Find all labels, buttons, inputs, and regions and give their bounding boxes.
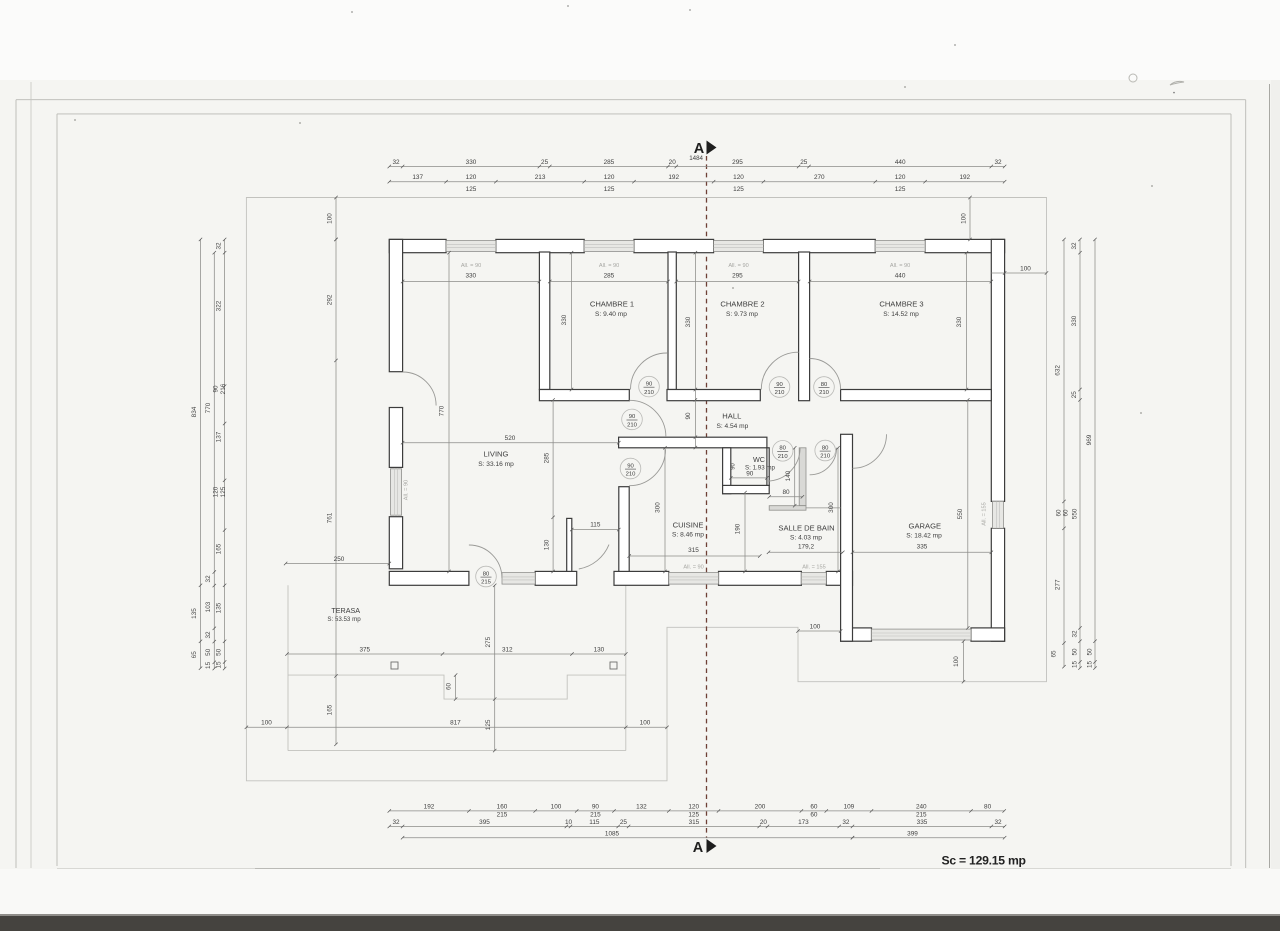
- terasa french-door fixed part (hatched): [502, 573, 535, 585]
- svg-text:213: 213: [535, 174, 546, 181]
- door label 80/210 chambre3: [814, 377, 835, 398]
- svg-text:32: 32: [392, 819, 400, 826]
- svg-text:10: 10: [565, 819, 573, 826]
- exterior wall top - pier right: [925, 239, 1005, 252]
- right dim chain 632/60-60/277/65: [1063, 239, 1065, 666]
- window top wall living 120: [446, 241, 496, 252]
- svg-text:S: 9.73 mp: S: 9.73 mp: [726, 311, 758, 318]
- svg-text:295: 295: [732, 273, 743, 280]
- svg-text:S: 18.42 mp: S: 18.42 mp: [906, 533, 942, 540]
- svg-text:215: 215: [481, 580, 492, 586]
- door hall to bath corridor arc: [767, 448, 800, 481]
- dim 100/817/100 below terasa: [246, 726, 667, 728]
- window cuisine south 120 All=90: [669, 573, 719, 585]
- svg-text:192: 192: [424, 803, 435, 810]
- svg-text:137: 137: [215, 431, 222, 442]
- svg-text:All. = 90: All. = 90: [404, 480, 410, 500]
- window top wall chambre2 120: [714, 241, 764, 252]
- svg-text:15: 15: [205, 661, 212, 669]
- svg-text:32: 32: [205, 575, 212, 583]
- svg-text:200: 200: [755, 803, 766, 810]
- dim 285/130 living east: [552, 400, 554, 572]
- svg-text:32: 32: [994, 159, 1002, 166]
- dim 315 cuisine width: [629, 555, 760, 557]
- svg-text:125: 125: [688, 812, 699, 819]
- dim 275/125 terasa vertical: [494, 585, 496, 750]
- svg-text:15: 15: [1072, 661, 1079, 669]
- lower terrace slab outline: [288, 750, 626, 752]
- svg-text:770: 770: [439, 405, 446, 416]
- wc west wall: [723, 448, 731, 494]
- dim 300 bath height: [837, 448, 839, 572]
- dim 520 living width: [403, 442, 619, 444]
- site boundary outline: [246, 198, 1046, 781]
- bottom dim total 399: [853, 837, 1005, 839]
- dim 250 terasa to house left: [286, 563, 390, 565]
- svg-text:550: 550: [957, 508, 964, 519]
- svg-text:All. = 155: All. = 155: [802, 565, 825, 571]
- svg-text:32: 32: [205, 631, 212, 639]
- svg-text:90: 90: [592, 803, 600, 810]
- dim 140 corridor: [794, 448, 796, 506]
- svg-text:50: 50: [205, 648, 212, 656]
- exterior wall top - pier left: [389, 239, 446, 252]
- svg-text:132: 132: [636, 803, 647, 810]
- svg-text:632: 632: [1055, 365, 1062, 376]
- svg-text:761: 761: [327, 512, 334, 523]
- hall south wall: [619, 437, 767, 448]
- svg-text:S: 4.03 mp: S: 4.03 mp: [790, 535, 822, 542]
- svg-text:CUISINE: CUISINE: [673, 521, 704, 530]
- outer drawing frame: [16, 99, 1246, 101]
- south wall pier 132: [614, 571, 669, 585]
- svg-text:165: 165: [215, 543, 222, 554]
- svg-text:330: 330: [1071, 315, 1078, 326]
- exterior wall left - pier lower: [389, 517, 402, 569]
- dim 440 chambre3 width: [810, 281, 992, 283]
- door label 80/210 garage: [815, 440, 836, 461]
- terasa slab outline: [288, 585, 626, 699]
- dim 100 left of garage south: [798, 630, 841, 632]
- left dim chain 32/322/90-216/137/120-125/165/135/50/15: [224, 239, 226, 668]
- svg-text:80: 80: [782, 489, 790, 496]
- wc south wall: [723, 485, 770, 493]
- dim 100 horizontal house-to-site right: [991, 272, 1046, 274]
- svg-text:32: 32: [215, 242, 222, 250]
- south wall pier 100: [535, 571, 577, 585]
- svg-text:322: 322: [215, 300, 222, 311]
- svg-text:240: 240: [916, 803, 927, 810]
- exterior wall top - pier 4: [763, 239, 875, 252]
- svg-text:330: 330: [561, 314, 568, 325]
- garage door 240 hatched band: [872, 629, 972, 640]
- svg-text:15: 15: [1087, 661, 1094, 669]
- svg-text:312: 312: [502, 646, 513, 653]
- svg-text:395: 395: [479, 819, 490, 826]
- interior wall chambre2/chambre3: [799, 252, 810, 401]
- svg-text:440: 440: [895, 159, 906, 166]
- svg-text:285: 285: [604, 159, 615, 166]
- dim 335 garage width: [853, 551, 992, 553]
- svg-text:S: 4.54 mp: S: 4.54 mp: [716, 423, 748, 430]
- interior wall chambre1/chambre2: [668, 252, 676, 390]
- svg-text:25: 25: [541, 159, 549, 166]
- dim 285 chambre1 width: [550, 281, 668, 283]
- dim 330 chambre2 height + hall 90: [694, 253, 696, 448]
- bedroom south wall segment under chambre2: [667, 390, 760, 401]
- interior wall living/chambre1: [539, 252, 549, 390]
- exterior wall left - pier middle: [389, 408, 402, 468]
- svg-text:295: 295: [732, 159, 743, 166]
- svg-text:90: 90: [212, 385, 219, 393]
- svg-text:179,2: 179,2: [798, 543, 814, 550]
- svg-text:109: 109: [844, 803, 855, 810]
- svg-text:300: 300: [655, 502, 662, 513]
- bottom dim chain row1 192/160/100/90/132/120/200/60/109/240/80: [389, 810, 1004, 812]
- window left wall 120 All=90: [390, 469, 401, 515]
- svg-text:969: 969: [1086, 434, 1093, 445]
- svg-text:100: 100: [640, 720, 651, 727]
- svg-text:32: 32: [1072, 630, 1079, 638]
- svg-text:All. = 90: All. = 90: [461, 263, 481, 269]
- door living to cuisine arc: [629, 449, 665, 485]
- garage south wall pier west: [841, 628, 872, 641]
- svg-text:100: 100: [1020, 266, 1031, 273]
- svg-text:330: 330: [956, 316, 963, 327]
- svg-text:90: 90: [627, 463, 634, 469]
- dim 100 vertical site-to-house top left: [335, 198, 337, 240]
- svg-text:215: 215: [497, 812, 508, 819]
- svg-text:80: 80: [483, 571, 490, 577]
- dim 330 living top width: [403, 281, 540, 283]
- right dim chain 32/330/25/550/32/50/15: [1079, 239, 1081, 668]
- door living to terasa arc: [469, 545, 502, 578]
- svg-text:25: 25: [620, 819, 628, 826]
- svg-text:192: 192: [959, 174, 970, 181]
- svg-text:292: 292: [327, 294, 334, 305]
- svg-text:1484: 1484: [689, 155, 703, 162]
- svg-text:CHAMBRE 3: CHAMBRE 3: [879, 300, 923, 309]
- scan specks: [351, 11, 353, 13]
- svg-text:817: 817: [450, 720, 461, 727]
- svg-text:20: 20: [669, 159, 677, 166]
- svg-text:90: 90: [629, 414, 636, 420]
- pergola post left: [391, 662, 398, 669]
- svg-text:137: 137: [412, 174, 423, 181]
- svg-text:130: 130: [544, 539, 551, 550]
- bath-garage wall (garage west): [841, 434, 853, 641]
- svg-text:60: 60: [810, 812, 818, 819]
- bath north partition (hatched): [769, 506, 806, 511]
- svg-text:100: 100: [327, 213, 334, 224]
- dim 375/312/130 terasa: [287, 653, 626, 655]
- svg-text:330: 330: [685, 316, 692, 327]
- svg-text:125: 125: [220, 486, 227, 497]
- svg-text:335: 335: [917, 543, 928, 550]
- svg-text:250: 250: [334, 556, 345, 563]
- svg-text:115: 115: [589, 819, 600, 826]
- svg-text:80: 80: [984, 803, 992, 810]
- svg-text:120: 120: [212, 486, 219, 497]
- svg-text:A: A: [693, 840, 704, 856]
- svg-text:125: 125: [895, 186, 906, 193]
- door label 90/210 hall-living: [622, 409, 643, 430]
- svg-text:210: 210: [626, 472, 637, 478]
- svg-text:25: 25: [1071, 391, 1078, 399]
- exterior wall right - pier lower: [991, 528, 1004, 641]
- scanner dark strip at bottom edge: [0, 916, 1280, 931]
- svg-text:125: 125: [733, 186, 744, 193]
- door chambre2 swing arc: [761, 352, 798, 389]
- svg-text:275: 275: [485, 636, 492, 647]
- door living to hall arc: [629, 400, 666, 437]
- svg-text:60: 60: [1063, 509, 1070, 517]
- wc east thin wall: [767, 448, 769, 486]
- dim 770 living height: [448, 253, 450, 572]
- wall living east lower (cuisine west): [619, 487, 629, 572]
- left dim chain 770/32/103/32/50/15: [213, 253, 215, 669]
- door label 90/210 chambre2: [769, 377, 790, 398]
- door label 90/210 chambre1: [639, 376, 660, 397]
- svg-text:375: 375: [359, 646, 370, 653]
- svg-text:120: 120: [604, 174, 615, 181]
- dim 179,2 bath width: [769, 551, 843, 553]
- svg-text:S: 14.52 mp: S: 14.52 mp: [883, 311, 919, 318]
- svg-text:CHAMBRE 2: CHAMBRE 2: [720, 300, 764, 309]
- door chambre3 swing arc: [810, 359, 841, 390]
- dim 100 vertical site-to-house top right: [969, 198, 971, 240]
- svg-text:120: 120: [895, 174, 906, 181]
- top dim chain row2 137/120/213/120/192/120/270/120/192: [389, 181, 1004, 183]
- door label 80/215 terasa door: [476, 566, 497, 587]
- bottom dim total 1085: [403, 837, 853, 839]
- window garage east All=155: [992, 501, 1003, 528]
- svg-text:135: 135: [215, 602, 222, 613]
- svg-text:215: 215: [916, 812, 927, 819]
- pergola post right: [610, 662, 617, 669]
- svg-text:300: 300: [828, 502, 835, 513]
- svg-text:210: 210: [644, 390, 655, 396]
- garage north wall: [841, 390, 992, 401]
- svg-text:100: 100: [810, 623, 821, 630]
- svg-text:90: 90: [731, 463, 737, 469]
- svg-text:135: 135: [191, 608, 198, 619]
- exterior wall top - pier 3: [634, 239, 714, 252]
- exterior wall left - pier upper: [389, 239, 402, 371]
- svg-text:100: 100: [961, 213, 968, 224]
- svg-text:S: 33.16 mp: S: 33.16 mp: [478, 461, 514, 468]
- svg-text:WC: WC: [753, 455, 765, 464]
- svg-text:103: 103: [205, 601, 212, 612]
- svg-text:210: 210: [775, 390, 786, 396]
- window top wall chambre3 120: [875, 241, 925, 252]
- svg-text:32: 32: [994, 819, 1002, 826]
- svg-text:80: 80: [822, 445, 829, 451]
- svg-text:210: 210: [820, 454, 831, 460]
- paper fold edges: [30, 82, 32, 868]
- door chambre1 swing arc: [631, 353, 668, 390]
- dim 80 bath door: [769, 496, 802, 498]
- south wall pier 200: [719, 571, 802, 585]
- svg-text:550: 550: [1072, 508, 1079, 519]
- svg-text:50: 50: [215, 648, 222, 656]
- svg-text:315: 315: [689, 819, 700, 826]
- dim 90 wc width: [731, 477, 767, 479]
- garage south wall pier east: [971, 628, 1005, 641]
- svg-text:173: 173: [798, 819, 809, 826]
- svg-text:210: 210: [627, 423, 638, 429]
- svg-text:90: 90: [746, 470, 754, 477]
- svg-text:335: 335: [917, 819, 928, 826]
- dim 115 kitchen passage: [572, 529, 619, 531]
- svg-text:All. = 90: All. = 90: [599, 263, 619, 269]
- south wall pier bath-garage corner: [826, 571, 852, 585]
- svg-text:50: 50: [1087, 648, 1094, 656]
- door garage arc: [853, 434, 887, 468]
- svg-text:315: 315: [688, 547, 699, 554]
- kitchen door stub wall: [567, 518, 572, 571]
- exterior wall top - pier 2: [496, 239, 584, 252]
- pencil smudge top right: [1129, 74, 1137, 82]
- svg-text:S: 9.40 mp: S: 9.40 mp: [595, 311, 627, 318]
- svg-text:115: 115: [590, 522, 601, 529]
- svg-text:285: 285: [544, 452, 551, 463]
- svg-text:215: 215: [590, 812, 601, 819]
- svg-text:100: 100: [953, 656, 960, 667]
- svg-text:S: 8.46 mp: S: 8.46 mp: [672, 532, 704, 539]
- svg-text:125: 125: [604, 186, 615, 193]
- svg-text:190: 190: [735, 523, 742, 534]
- svg-text:210: 210: [819, 390, 830, 396]
- dim chain left of plan 292/761/165: [335, 239, 337, 744]
- svg-text:440: 440: [895, 273, 906, 280]
- exterior wall right - pier upper: [991, 239, 1004, 501]
- section line A-A (dashed): [706, 156, 708, 838]
- svg-text:32: 32: [1071, 242, 1078, 250]
- svg-text:285: 285: [604, 273, 615, 280]
- svg-text:834: 834: [191, 406, 198, 417]
- svg-text:120: 120: [733, 174, 744, 181]
- door label 90/210 living-cuisine: [620, 458, 641, 479]
- window salle de bain 60 All=155: [801, 573, 826, 585]
- dim 330 chambre3 height: [966, 253, 968, 390]
- bottom dim chain row2 32/395/10/115/25/315/20/173/32/335/32: [389, 825, 1004, 827]
- bedroom south wall segment under chambre1: [539, 390, 629, 401]
- svg-text:520: 520: [505, 435, 516, 442]
- entry door left wall with swing arc: [403, 372, 437, 406]
- svg-text:All. = 90: All. = 90: [890, 263, 910, 269]
- dim 100 below garage: [963, 641, 965, 682]
- svg-text:130: 130: [594, 646, 605, 653]
- svg-text:SALLE DE BAIN: SALLE DE BAIN: [778, 524, 834, 533]
- svg-text:32: 32: [392, 159, 400, 166]
- dim 330 chambre1 height: [571, 253, 573, 390]
- svg-text:90: 90: [646, 381, 653, 387]
- door label 80/210 bath corridor: [772, 441, 793, 462]
- dim 550 garage height: [967, 400, 969, 628]
- dim 60 terasa notch: [455, 675, 457, 699]
- door south 90 arc (pivot at stub top): [579, 545, 609, 569]
- svg-text:160: 160: [497, 803, 508, 810]
- svg-text:1085: 1085: [605, 830, 620, 837]
- dim 300 cuisine height: [664, 448, 666, 572]
- south wall living-terasa pier west: [389, 571, 469, 585]
- svg-text:15: 15: [215, 661, 222, 669]
- svg-text:90: 90: [685, 412, 692, 420]
- svg-text:65: 65: [191, 651, 198, 659]
- dim 295 chambre2 width: [676, 281, 798, 283]
- window top wall chambre1 120: [584, 241, 634, 252]
- svg-text:770: 770: [205, 402, 212, 413]
- svg-text:120: 120: [688, 803, 699, 810]
- svg-text:50: 50: [1072, 648, 1079, 656]
- svg-text:270: 270: [814, 174, 825, 181]
- svg-text:60: 60: [810, 803, 818, 810]
- svg-text:216: 216: [220, 383, 227, 394]
- svg-text:125: 125: [485, 719, 492, 730]
- svg-text:277: 277: [1055, 579, 1062, 590]
- left dim chain total 834/135/65: [200, 239, 202, 668]
- svg-text:32: 32: [842, 819, 850, 826]
- plumbing duct wall (hatched) vertical: [799, 448, 806, 506]
- svg-text:25: 25: [800, 159, 808, 166]
- svg-text:LIVING: LIVING: [484, 450, 509, 459]
- svg-text:60: 60: [1056, 509, 1063, 517]
- svg-text:60: 60: [445, 683, 452, 691]
- right dim chain total 969/50/15: [1094, 239, 1096, 668]
- svg-text:GARAGE: GARAGE: [909, 522, 942, 531]
- svg-text:140: 140: [785, 470, 792, 481]
- svg-text:CHAMBRE 1: CHAMBRE 1: [590, 300, 634, 309]
- svg-text:90: 90: [776, 382, 783, 388]
- inner drawing frame: [57, 113, 1231, 115]
- svg-text:65: 65: [1051, 650, 1058, 658]
- top dim chain row1 32/330/25/285/20/295/25/440/32: [389, 166, 1004, 168]
- dim 190 cuisine below wc: [744, 493, 746, 572]
- svg-text:192: 192: [668, 174, 679, 181]
- svg-text:100: 100: [261, 720, 272, 727]
- svg-text:80: 80: [779, 446, 786, 452]
- svg-text:399: 399: [907, 830, 918, 837]
- svg-text:330: 330: [465, 273, 476, 280]
- svg-text:125: 125: [466, 186, 477, 193]
- svg-text:S: 53.53 mp: S: 53.53 mp: [327, 616, 361, 623]
- svg-text:HALL: HALL: [722, 412, 741, 421]
- door nook to bath arc: [810, 448, 837, 475]
- svg-text:All. = 90: All. = 90: [728, 263, 748, 269]
- svg-text:Sc = 129.15 mp: Sc = 129.15 mp: [942, 853, 1026, 867]
- svg-text:All. = 155: All. = 155: [981, 502, 987, 525]
- svg-text:210: 210: [778, 454, 789, 460]
- svg-text:120: 120: [466, 174, 477, 181]
- svg-text:20: 20: [760, 819, 768, 826]
- svg-text:All. = 90: All. = 90: [683, 565, 703, 571]
- svg-text:100: 100: [551, 803, 562, 810]
- svg-text:330: 330: [466, 159, 477, 166]
- svg-text:165: 165: [327, 704, 334, 715]
- svg-text:80: 80: [821, 382, 828, 388]
